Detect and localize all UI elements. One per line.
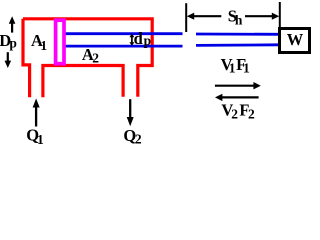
svg-text:dp: dp xyxy=(134,29,152,48)
svg-text:Dp: Dp xyxy=(0,31,17,50)
svg-text:V1F1: V1F1 xyxy=(221,55,250,75)
svg-text:A2: A2 xyxy=(82,45,99,65)
svg-text:V2F2: V2F2 xyxy=(221,100,255,121)
svg-text:A1: A1 xyxy=(31,31,47,53)
svg-text:W: W xyxy=(287,30,304,49)
svg-text:Q1: Q1 xyxy=(26,125,44,144)
svg-text:Sh: Sh xyxy=(228,7,243,28)
svg-text:Q2: Q2 xyxy=(123,126,141,144)
